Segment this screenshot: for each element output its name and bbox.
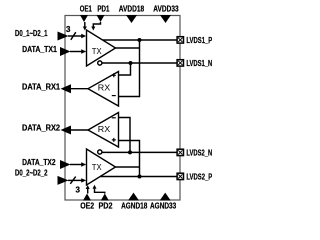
- pin DATA_TX1 (input): [60, 47, 86, 56]
- svg-text:D0_2~D2_2: D0_2~D2_2: [15, 168, 48, 177]
- wire LVDS2_P net: [100, 176, 177, 178]
- wire N1 vertical to RX1 plus: [119, 63, 131, 75]
- svg-text:D0_1~D2_1: D0_1~D2_1: [15, 29, 48, 38]
- receiver RX1: [88, 72, 119, 107]
- svg-text:TX: TX: [92, 162, 102, 172]
- svg-text:LVDS2_N: LVDS2_N: [186, 149, 212, 158]
- svg-text:DATA_TX1: DATA_TX1: [22, 45, 57, 54]
- pad LVDS1_P: [177, 37, 183, 43]
- svg-text:DATA_RX2: DATA_RX2: [22, 123, 61, 132]
- wire P2 vertical to RX2 plus: [119, 141, 140, 177]
- bus slash: [70, 177, 75, 184]
- pin DATA_RX1 (output): [61, 84, 89, 93]
- wire LVDS2_N net: [102, 151, 177, 153]
- pin AGND33: [160, 193, 171, 201]
- pin AVDD33: [160, 15, 171, 23]
- pin DATA_TX2 (input): [60, 160, 86, 169]
- wire LVDS1_N net: [102, 62, 177, 64]
- minus RX1: [112, 95, 116, 97]
- block border: [65, 16, 180, 201]
- svg-text:PD1: PD1: [97, 4, 109, 13]
- svg-text:OE2: OE2: [80, 201, 94, 210]
- pin D0_2~D2_2 (bus input): [58, 176, 87, 195]
- junction dot N2: [128, 150, 132, 154]
- pad LVDS1_N: [177, 60, 183, 66]
- wire LVDS1_P net: [103, 39, 177, 41]
- svg-text:AGND18: AGND18: [121, 201, 148, 210]
- wire N2 vertical to RX2 minus: [119, 118, 131, 153]
- receiver RX2: [88, 113, 119, 148]
- pin D0_1~D2_1 (bus input): [58, 25, 87, 41]
- svg-text:AGND33: AGND33: [150, 201, 177, 210]
- wire TX2 tip output: [116, 166, 140, 168]
- wire P1 vertical to RX1 minus: [119, 40, 140, 97]
- pad LVDS2_N: [177, 149, 183, 155]
- wire TX1 tip output: [116, 47, 140, 49]
- svg-text:RX: RX: [98, 124, 111, 134]
- svg-text:AVDD18: AVDD18: [119, 4, 145, 13]
- svg-text:PD2: PD2: [99, 201, 113, 210]
- plus RX1: [112, 73, 116, 77]
- svg-text:LVDS1_P: LVDS1_P: [186, 36, 212, 45]
- svg-text:DATA_RX1: DATA_RX1: [22, 82, 61, 91]
- inversion bubble TX2: [98, 150, 102, 154]
- bus slash: [71, 32, 76, 40]
- svg-text:DATA_TX2: DATA_TX2: [22, 158, 56, 167]
- junction dot N1: [129, 61, 133, 65]
- junction dot P2: [138, 175, 142, 179]
- pin AGND18: [128, 193, 139, 201]
- plus RX2: [112, 138, 116, 142]
- svg-text:3: 3: [76, 186, 81, 195]
- svg-text:3: 3: [66, 25, 71, 34]
- pin OE1: [80, 15, 88, 31]
- svg-text:TX: TX: [92, 46, 102, 56]
- driver TX1: [87, 30, 116, 66]
- pin AVDD18: [126, 15, 137, 23]
- junction dot P1: [138, 38, 142, 42]
- pin PD2: [93, 185, 109, 201]
- driver TX2: [87, 149, 116, 185]
- pin PD1: [91, 15, 104, 31]
- svg-text:LVDS2_P: LVDS2_P: [186, 173, 212, 182]
- svg-text:OE1: OE1: [80, 4, 92, 13]
- pin DATA_RX2 (output): [61, 126, 89, 135]
- svg-text:RX: RX: [98, 83, 111, 93]
- pad LVDS2_P: [177, 173, 183, 179]
- svg-text:LVDS1_N: LVDS1_N: [186, 59, 212, 68]
- minus RX2: [112, 117, 116, 119]
- inversion bubble TX1: [98, 61, 102, 65]
- svg-text:AVDD33: AVDD33: [153, 4, 179, 13]
- pin OE2: [83, 185, 91, 201]
